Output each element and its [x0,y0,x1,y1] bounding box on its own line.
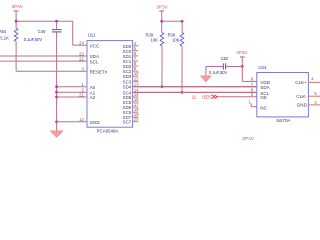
svg-text:VCC: VCC [90,43,100,48]
svg-text:3P3V: 3P3V [242,136,255,142]
svg-text:A2: A2 [90,95,96,100]
svg-text:OE: OE [260,95,267,100]
svg-text:20: 20 [134,117,139,122]
svg-text:Si570A: Si570A [276,118,290,123]
svg-text:SC7: SC7 [123,120,132,125]
svg-text:C82: C82 [221,56,229,61]
svg-text:RESETn: RESETn [90,69,108,74]
svg-text:11: 11 [192,95,197,100]
svg-text:13: 13 [134,82,139,87]
svg-text:SCL: SCL [90,59,99,64]
svg-text:U24: U24 [258,65,267,70]
svg-text:C46: C46 [38,29,46,34]
svg-text:5.1K: 5.1K [0,35,9,40]
svg-text:SC3: SC3 [123,79,132,84]
svg-text:0.1uF,50V: 0.1uF,50V [24,37,43,42]
svg-text:SD4: SD4 [123,85,132,90]
svg-text:NC: NC [260,106,267,111]
svg-text:0.1uF,50V: 0.1uF,50V [209,70,228,75]
svg-text:PCA9548A: PCA9548A [97,129,119,134]
svg-text:21: 21 [79,92,84,97]
svg-text:22: 22 [79,56,84,61]
svg-text:A0: A0 [90,85,96,90]
svg-text:GND: GND [297,103,308,108]
svg-text:CLK-: CLK- [296,94,307,99]
svg-text:12: 12 [79,117,84,122]
svg-text:24: 24 [79,41,84,46]
svg-text:10K: 10K [172,38,180,43]
svg-text:11: 11 [134,76,139,81]
svg-text:OE5: OE5 [202,95,211,100]
svg-text:VDD: VDD [260,80,270,85]
svg-text:3P3V: 3P3V [236,50,248,55]
svg-text:3P3V: 3P3V [11,4,23,9]
svg-text:GND: GND [90,120,101,125]
svg-text:SDA: SDA [260,85,270,90]
svg-text:CLK+: CLK+ [295,80,307,85]
svg-text:3P3V: 3P3V [156,4,168,9]
svg-text:U11: U11 [88,32,96,37]
svg-text:R84: R84 [0,29,7,34]
svg-text:10K: 10K [151,38,159,43]
